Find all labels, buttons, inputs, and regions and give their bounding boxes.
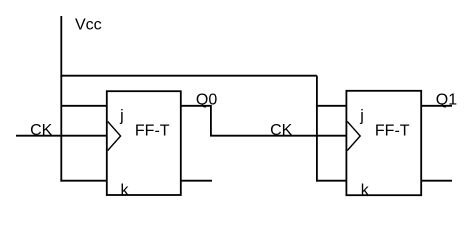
- svg-text:Vcc: Vcc: [75, 16, 102, 33]
- svg-text:Q1: Q1: [436, 92, 457, 109]
- svg-text:j: j: [119, 107, 124, 124]
- svg-text:FF-T: FF-T: [375, 122, 410, 139]
- svg-text:k: k: [361, 182, 370, 199]
- svg-text:k: k: [121, 182, 130, 199]
- svg-text:j: j: [359, 107, 364, 124]
- svg-text:FF-T: FF-T: [135, 122, 170, 139]
- svg-text:CK: CK: [270, 122, 293, 139]
- svg-text:Q0: Q0: [196, 92, 217, 109]
- svg-text:CK: CK: [30, 122, 53, 139]
